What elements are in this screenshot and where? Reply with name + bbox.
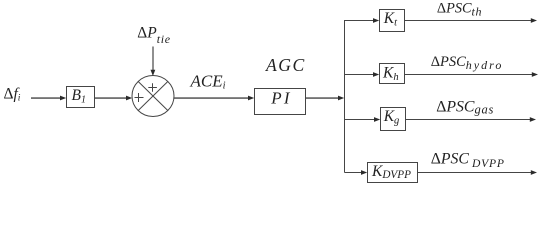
svg-text:AGC: AGC xyxy=(265,55,306,75)
svg-text:PI: PI xyxy=(270,89,291,108)
svg-text:ACEi: ACEi xyxy=(190,72,226,92)
